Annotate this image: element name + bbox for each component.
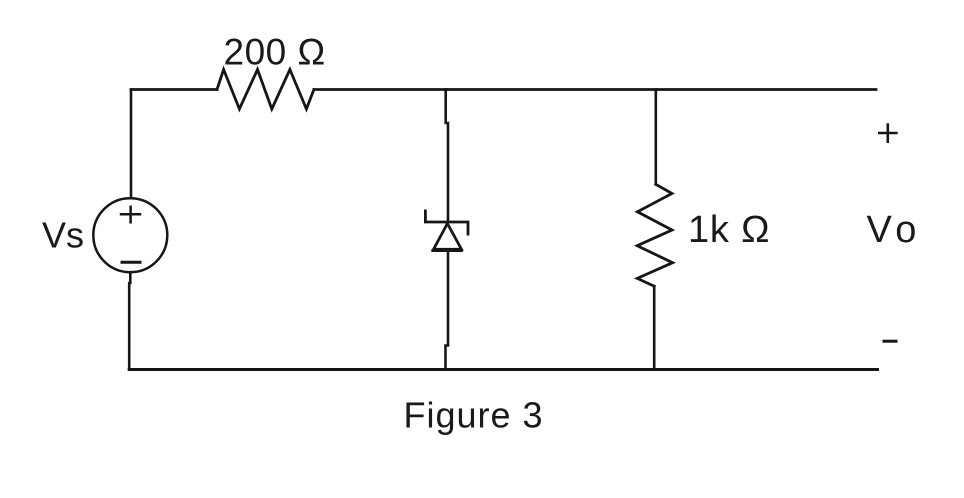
output terminal plus (879, 125, 896, 142)
svg-text:Figure 3: Figure 3 (404, 395, 544, 436)
svg-text:1k Ω: 1k Ω (688, 209, 770, 251)
resistor R2 1k ohm zigzag (637, 184, 672, 286)
wire top rail right segment (656, 88, 876, 91)
wire left vertical (source bottom to bottom rail) (129, 272, 130, 369)
resistor R1 200 ohm zigzag (217, 70, 314, 110)
wire top rail middle segment (314, 88, 446, 91)
svg-text:Vs: Vs (42, 215, 84, 256)
wire top rail left segment (131, 88, 217, 91)
label Vs (42, 215, 84, 256)
wire left vertical (source top to top rail) (130, 90, 133, 199)
node junction top of zener branch (446, 88, 656, 91)
wire zener branch upper (446, 90, 448, 222)
voltage source Vs (93, 198, 167, 272)
wire 1k branch upper (654, 90, 657, 185)
wire zener branch lower (446, 251, 449, 369)
caption Figure 3 (404, 395, 544, 436)
output terminal minus (884, 340, 896, 343)
svg-text:200 Ω: 200 Ω (224, 32, 326, 73)
svg-text:Vo: Vo (867, 209, 922, 251)
zener diode D1 (425, 211, 468, 251)
wire 1k branch lower (653, 286, 656, 369)
label 1k Ω (688, 209, 770, 251)
wire bottom rail (129, 368, 877, 371)
label 200 Ω (224, 32, 326, 73)
label Vo (867, 209, 922, 251)
